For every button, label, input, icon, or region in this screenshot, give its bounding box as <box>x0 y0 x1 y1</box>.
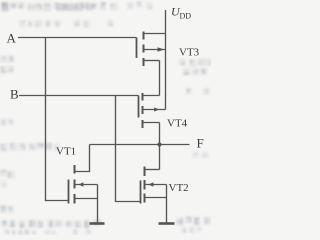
wire: VT3 drain down to VT4 source <box>159 61 161 96</box>
wire: VT1 drain up to F line <box>75 145 90 172</box>
transistor VT1 label <box>56 146 76 158</box>
transistor VT3 (PMOS) <box>137 32 166 67</box>
wire: output node F horizontal line <box>90 144 190 146</box>
transistor VT2 label <box>169 182 189 194</box>
transistor VT1 (NMOS) <box>69 165 98 204</box>
transistor VT2 (NMOS) <box>141 167 167 204</box>
input label A <box>7 31 17 46</box>
svg-text:VT4: VT4 <box>167 118 188 130</box>
page background <box>0 0 211 235</box>
svg-text:VT3: VT3 <box>179 47 200 59</box>
svg-text:B: B <box>10 87 19 102</box>
svg-text:VT1: VT1 <box>56 146 76 158</box>
wire: A vertical branch down to VT1 gate lead <box>46 38 69 201</box>
wire: B vertical branch down to VT2 gate lead <box>116 96 141 202</box>
ground symbol (VT1) <box>90 222 105 225</box>
transistor VT4 label <box>167 118 188 130</box>
wire: VT1 source and substrate down to ground <box>97 185 99 223</box>
transistor VT3 label <box>179 47 200 59</box>
output label F <box>197 136 204 151</box>
svg-text:F: F <box>197 136 204 151</box>
node junction dot at F <box>157 142 161 146</box>
faint bleed-through print on page <box>0 1 214 235</box>
svg-text:A: A <box>7 31 17 46</box>
input label B <box>10 87 19 102</box>
ground symbol (VT2) <box>159 222 175 225</box>
svg-text:VT2: VT2 <box>169 182 189 194</box>
svg-text:DD: DD <box>180 12 192 21</box>
wire: U_DD power rail vertical <box>165 10 167 110</box>
power U_DD label <box>171 5 191 21</box>
wire: input B horizontal line <box>19 95 139 97</box>
wire: input A horizontal line <box>18 37 137 39</box>
wire: VT4 drain down to output node <box>159 123 161 170</box>
wire: VT2 source and substrate down to ground <box>166 185 168 223</box>
transistor VT4 (PMOS) <box>139 93 166 128</box>
